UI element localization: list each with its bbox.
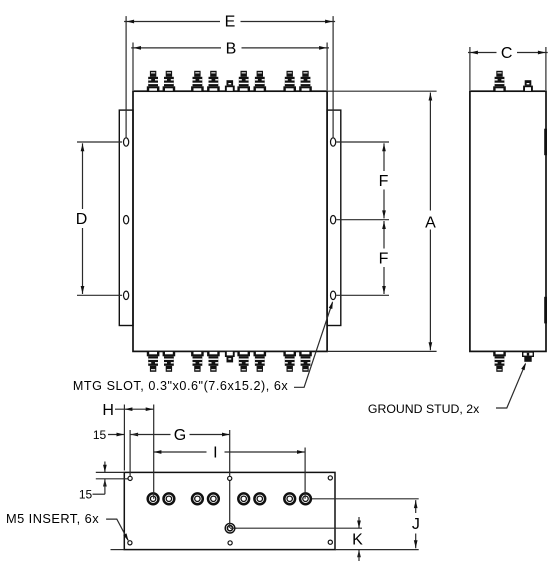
svg-text:B: B	[226, 41, 237, 58]
ground stud leader	[496, 364, 526, 408]
dim A line	[429, 93, 431, 211]
svg-text:MTG SLOT, 0.3"x0.6"(7.6x15.2),: MTG SLOT, 0.3"x0.6"(7.6x15.2), 6x	[73, 379, 289, 393]
dim D line	[82, 143, 84, 209]
dim D extension line top	[77, 141, 122, 143]
dim F lower line	[383, 221, 385, 249]
bottom connector 5	[237, 351, 250, 371]
mtg slot right middle	[331, 216, 336, 224]
mtg slot right top	[331, 138, 336, 146]
side top SMA connector	[493, 71, 506, 91]
dim G extension line x=229.2	[229, 430, 231, 524]
side bottom SMA connector	[493, 351, 506, 371]
top connector 7	[283, 71, 296, 91]
m5 insert leader	[106, 519, 128, 540]
bottom connector 3	[191, 351, 204, 371]
dim I extension line right	[304, 448, 306, 496]
bottom connector 1	[147, 351, 160, 371]
bottom center small connector	[225, 351, 235, 362]
side slot mark top	[544, 129, 547, 156]
front view body	[133, 91, 327, 351]
dim 15/G extension line x=129.6	[129, 430, 131, 477]
m5 hole extension line left	[96, 478, 128, 480]
top center small connector	[225, 80, 235, 91]
dim C extension line right	[545, 47, 547, 90]
svg-text:D: D	[76, 211, 88, 228]
svg-text:G: G	[174, 427, 186, 444]
dim B extension line left	[132, 43, 134, 91]
bottom view connector circle 1	[148, 493, 159, 504]
dim C extension line left	[469, 47, 471, 90]
m5 insert hole bottom middle	[228, 541, 232, 545]
mtg slot left top	[124, 138, 129, 146]
top connector 2	[163, 71, 176, 91]
mtg slot leader	[294, 302, 333, 387]
m5 insert hole bottom left	[128, 541, 132, 545]
dim B line	[131, 47, 221, 49]
dim A extension line bottom	[327, 350, 437, 352]
dim 15 vertical foot	[93, 493, 105, 495]
svg-text:J: J	[412, 516, 420, 533]
bottom view connector circle 7	[284, 493, 295, 504]
bottom view connector circle 4	[208, 493, 219, 504]
m5 insert hole top left	[128, 476, 132, 480]
svg-text:E: E	[225, 14, 236, 31]
connector row extension line	[312, 498, 419, 500]
svg-text:F: F	[379, 173, 389, 190]
mtg slot left bottom	[124, 291, 129, 299]
bottom connector 4	[207, 351, 220, 371]
svg-text:F: F	[379, 250, 389, 267]
top connector 3	[191, 71, 204, 91]
bottom connector 8	[299, 351, 312, 371]
dim K arrows	[358, 517, 360, 528]
dim E line	[124, 21, 220, 23]
dim H extension line left	[123, 405, 125, 471]
svg-text:A: A	[425, 215, 436, 232]
top connector 1	[147, 71, 160, 91]
dim B extension line right	[326, 43, 328, 91]
bottom view connector circle 3	[192, 493, 203, 504]
bottom connector 2	[163, 351, 176, 371]
dim C line	[468, 52, 497, 54]
mtg slot right bottom	[331, 291, 336, 299]
extension line overlays into circles	[153, 492, 155, 499]
svg-text:H: H	[102, 402, 114, 419]
m5 insert hole bottom right	[328, 540, 332, 544]
svg-text:K: K	[352, 531, 363, 548]
svg-text:I: I	[213, 445, 217, 462]
svg-text:15: 15	[93, 428, 107, 442]
top connector 5	[237, 71, 250, 91]
dim I line	[153, 451, 206, 453]
dim F extension line middle	[336, 219, 389, 221]
svg-text:GROUND STUD, 2x: GROUND STUD, 2x	[368, 402, 480, 416]
dim 15 vertical arrows	[104, 462, 106, 473]
side slot mark bottom	[544, 297, 547, 324]
mtg slot left middle	[124, 216, 129, 224]
side view body	[470, 91, 546, 351]
bottom view single connector	[225, 523, 235, 533]
bottom view connector circle 5	[238, 493, 249, 504]
right mounting flange	[327, 110, 341, 325]
m5 insert hole top right	[328, 476, 332, 480]
top connector 6	[253, 71, 266, 91]
m5 insert hole top middle	[228, 476, 232, 480]
single connector extension line	[235, 527, 362, 529]
svg-text:15: 15	[79, 487, 93, 501]
bottom view connector circle 2	[164, 493, 175, 504]
ground stud on side bottom	[523, 352, 534, 362]
bottom view connector circle 8	[300, 493, 311, 504]
top edge extension line left	[96, 471, 125, 473]
dim A extension line top	[327, 90, 437, 92]
top connector 4	[207, 71, 220, 91]
dim H line	[115, 408, 154, 410]
bottom view connector circle 6	[254, 493, 265, 504]
dim G line	[130, 434, 170, 436]
dim F extension line top	[336, 141, 389, 143]
svg-text:C: C	[501, 45, 513, 62]
dim F extension line bottom	[336, 294, 389, 296]
bottom edge extension line right	[335, 549, 419, 551]
top connector 8	[299, 71, 312, 91]
bottom view body	[124, 472, 335, 549]
bottom edge extension left	[111, 549, 125, 551]
dim J line	[415, 500, 417, 513]
dim E extension line right	[332, 16, 334, 138]
dim D extension line bottom	[77, 294, 122, 296]
svg-text:M5 INSERT, 6x: M5 INSERT, 6x	[6, 511, 99, 526]
left mounting flange	[119, 110, 133, 325]
side top small stud	[523, 80, 533, 91]
bottom connector 7	[283, 351, 296, 371]
dim H extension line right	[153, 405, 155, 496]
dim F upper line	[383, 143, 385, 171]
dim 15 horizontal line and outside arrows	[108, 434, 124, 436]
bottom connector 6	[253, 351, 266, 371]
dim E extension line left	[125, 16, 127, 138]
